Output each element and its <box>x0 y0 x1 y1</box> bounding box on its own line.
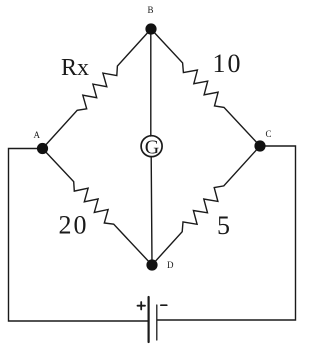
svg-text:5: 5 <box>217 211 230 240</box>
battery minus sign <box>161 304 167 306</box>
svg-text:C: C <box>266 129 272 139</box>
node D junction dot <box>146 259 157 270</box>
galvanometer U1 circle <box>141 136 162 157</box>
wire A to left rail <box>9 149 148 322</box>
svg-text:A: A <box>34 130 41 140</box>
resistor 5 (arm D-C) <box>152 146 260 265</box>
svg-text:10: 10 <box>213 49 243 78</box>
resistor 10 (arm B-C) <box>151 29 260 146</box>
wire B to galvanometer top <box>150 29 152 136</box>
resistor 20 (arm A-D) <box>43 149 153 266</box>
wire C to right rail <box>158 146 296 320</box>
wire galvanometer bottom to D <box>150 157 153 266</box>
resistor Rx (arm A-B) <box>43 29 152 149</box>
battery long plate (+) <box>148 297 150 342</box>
node B junction dot <box>145 23 156 34</box>
svg-text:Rx: Rx <box>61 55 89 81</box>
node A junction dot <box>37 143 48 154</box>
svg-text:G: G <box>145 136 159 158</box>
node C junction dot <box>254 140 265 151</box>
svg-text:20: 20 <box>59 211 89 240</box>
battery plus sign <box>138 302 146 310</box>
battery short plate (-) <box>156 305 158 340</box>
svg-text:B: B <box>148 5 154 15</box>
svg-text:D: D <box>167 260 174 270</box>
